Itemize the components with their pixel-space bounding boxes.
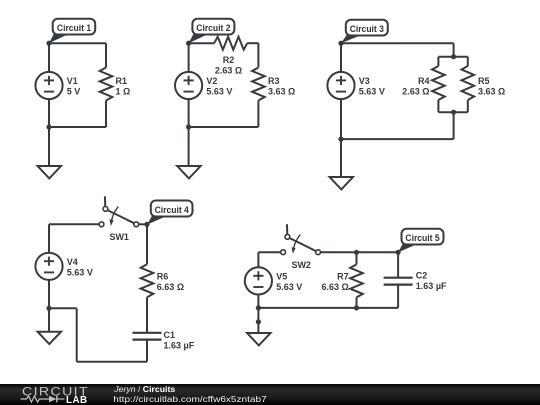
voltage source V1: [35, 72, 62, 99]
label Circuit 4: [147, 201, 192, 225]
svg-text:1.63 µF: 1.63 µF: [164, 340, 195, 350]
wire C1 bottom: [49, 126, 106, 128]
svg-text:R5: R5: [478, 76, 490, 86]
ground C4: [38, 332, 61, 344]
svg-text:R1: R1: [116, 76, 128, 86]
voltage source V4: [35, 253, 62, 280]
wire C1 ground-stem: [48, 127, 50, 166]
footer bar: [0, 384, 540, 405]
svg-text:Circuit 1: Circuit 1: [57, 23, 91, 33]
resistor R7: [350, 264, 363, 297]
wire C4 top: [49, 223, 99, 225]
wire C5 ground-stem: [257, 308, 259, 333]
node junction C2 top: [186, 41, 191, 46]
wire C4 branch-lower: [146, 340, 148, 362]
wire C3 R5-stub-top: [467, 57, 469, 66]
wire C5 bottom: [258, 307, 398, 309]
wire C4 source-top: [48, 224, 50, 253]
voltage source V3: [327, 72, 354, 99]
wire C3 parallel-bottom-bar: [438, 111, 467, 113]
svg-text:V2: V2: [206, 76, 217, 86]
label Circuit 1: [49, 19, 95, 44]
wire C3 R5-stub-bot: [467, 100, 469, 112]
wire C1 right-down: [105, 43, 107, 67]
node junction C3 parallel-top: [451, 54, 456, 59]
svg-text:1 Ω: 1 Ω: [116, 87, 131, 97]
resistor R3: [252, 68, 265, 101]
svg-text:C1: C1: [164, 330, 176, 340]
svg-text:R6: R6: [157, 271, 169, 281]
label Circuit 5: [398, 229, 444, 253]
svg-text:V1: V1: [67, 76, 78, 86]
svg-text:R3: R3: [268, 76, 280, 86]
svg-text:SW2: SW2: [291, 260, 311, 270]
svg-text:5.63 V: 5.63 V: [276, 282, 302, 292]
ground C1: [38, 166, 61, 178]
node junction C5 R7-top: [354, 250, 359, 255]
wire C2 bottom: [189, 126, 259, 128]
wire C4 branch-upper: [146, 224, 148, 264]
svg-text:V4: V4: [67, 257, 78, 267]
svg-text:LAB: LAB: [66, 395, 88, 405]
svg-text:3.63 Ω: 3.63 Ω: [478, 87, 505, 97]
svg-text:1.63 µF: 1.63 µF: [416, 281, 447, 291]
wire C4 left-up: [76, 308, 78, 361]
wire C2 ground-stem: [188, 127, 190, 166]
svg-text:C2: C2: [416, 270, 428, 280]
svg-text:5.63 V: 5.63 V: [359, 87, 385, 97]
svg-text:R2: R2: [223, 55, 235, 65]
wire C4 branch-mid: [146, 297, 148, 333]
svg-text:2.63 Ω: 2.63 Ω: [215, 65, 242, 75]
node junction C5 bottom-mid: [354, 305, 359, 310]
wire C5 R7-stub-top: [356, 252, 358, 264]
ground C2: [177, 166, 200, 178]
wire C2 top-left: [189, 42, 215, 44]
svg-text:Circuit 5: Circuit 5: [405, 233, 439, 243]
voltage source V2: [175, 72, 202, 99]
wire C2 right-down: [257, 43, 259, 67]
wire C2 right-lower: [257, 101, 259, 128]
wire C3 source-bottom: [340, 99, 342, 139]
wire C5 source-bottom: [257, 294, 259, 308]
ground C3: [330, 177, 353, 189]
svg-text:3.63 Ω: 3.63 Ω: [268, 87, 295, 97]
node junction C3 parallel-bottom: [451, 110, 456, 115]
svg-text:Circuit 4: Circuit 4: [155, 205, 190, 215]
wire C5 switch-to-corner: [321, 251, 399, 253]
wire C1 top: [49, 42, 106, 44]
svg-text:6.63 Ω: 6.63 Ω: [321, 282, 348, 292]
wire C3 mid-down: [453, 112, 455, 139]
svg-text:6.63 Ω: 6.63 Ω: [157, 282, 184, 292]
svg-text:R4: R4: [418, 76, 430, 86]
wire C2 source-top: [188, 43, 190, 72]
wire C2 top-right: [247, 42, 258, 44]
wire C5 top: [258, 251, 280, 253]
label Circuit 2: [189, 19, 235, 44]
capacitor C1: [133, 333, 162, 340]
svg-text:Circuit 2: Circuit 2: [196, 23, 230, 33]
wire C1 source-bottom: [48, 99, 50, 127]
node junction C4 bottom: [46, 306, 51, 311]
svg-text:5.63 V: 5.63 V: [206, 87, 232, 97]
svg-text:5.63 V: 5.63 V: [67, 267, 93, 277]
resistor R4: [432, 66, 445, 100]
node junction C5 ground: [256, 319, 261, 324]
wire C3 ground-stem: [340, 139, 342, 177]
resistor R1: [100, 68, 113, 101]
wire C2 source-bottom: [188, 99, 190, 127]
svg-text:V3: V3: [359, 76, 370, 86]
voltage source V5: [245, 267, 272, 294]
svg-text:R7: R7: [337, 271, 349, 281]
svg-text:5 V: 5 V: [67, 87, 81, 97]
CircuitLab logo: [21, 385, 90, 405]
wire C4 ground-stem: [48, 308, 50, 331]
svg-text:V5: V5: [276, 271, 287, 281]
wire C5 C2-lower: [397, 285, 399, 308]
wire C5 R7-stub-bot: [356, 297, 358, 308]
wire C3 parallel-top-bar: [438, 56, 467, 58]
resistor R6: [141, 264, 154, 297]
svg-text:http://circuitlab.com/cffw6x5z: http://circuitlab.com/cffw6x5zntab7: [113, 394, 267, 404]
switch SW2: [281, 224, 321, 254]
capacitor C2: [384, 278, 413, 285]
switch SW1: [99, 196, 139, 226]
resistor R2: [214, 37, 247, 50]
wire C3 R4-stub-top: [437, 57, 439, 66]
resistor R5: [462, 66, 475, 100]
wire C1 right-lower: [105, 101, 107, 128]
wire C4 bottom: [77, 361, 147, 363]
wire C4 switch-to-node: [139, 223, 147, 225]
node junction C3 top: [338, 41, 343, 46]
wire C3 top: [341, 42, 454, 44]
label Circuit 3: [341, 20, 388, 44]
svg-text:Jeryn / Circuits: Jeryn / Circuits: [113, 384, 175, 394]
wire C3 bottom: [341, 138, 454, 140]
wire C4 bottom-left: [49, 307, 77, 309]
wire C1 source-top: [48, 43, 50, 72]
wire C5 source-top: [257, 252, 259, 267]
svg-text:2.63 Ω: 2.63 Ω: [402, 87, 429, 97]
node junction C1 top: [46, 41, 51, 46]
wire C3 top-right-down: [453, 43, 455, 57]
node junction C3 bottom: [338, 137, 343, 142]
ground C5: [247, 333, 270, 345]
wire C3 R4-stub-bot: [437, 100, 439, 112]
wire C4 source-bottom: [48, 280, 50, 309]
wire C3 source-top: [340, 43, 342, 72]
wire C5 C2-upper: [397, 252, 399, 277]
svg-text:SW1: SW1: [109, 232, 129, 242]
svg-text:Circuit 3: Circuit 3: [350, 24, 384, 34]
node junction C5 bottom-left: [256, 305, 261, 310]
node junction C2 bottom: [186, 124, 191, 129]
node junction C1 bottom: [46, 124, 51, 129]
node junction C5 corner: [396, 250, 401, 255]
node junction C4 top: [144, 222, 149, 227]
